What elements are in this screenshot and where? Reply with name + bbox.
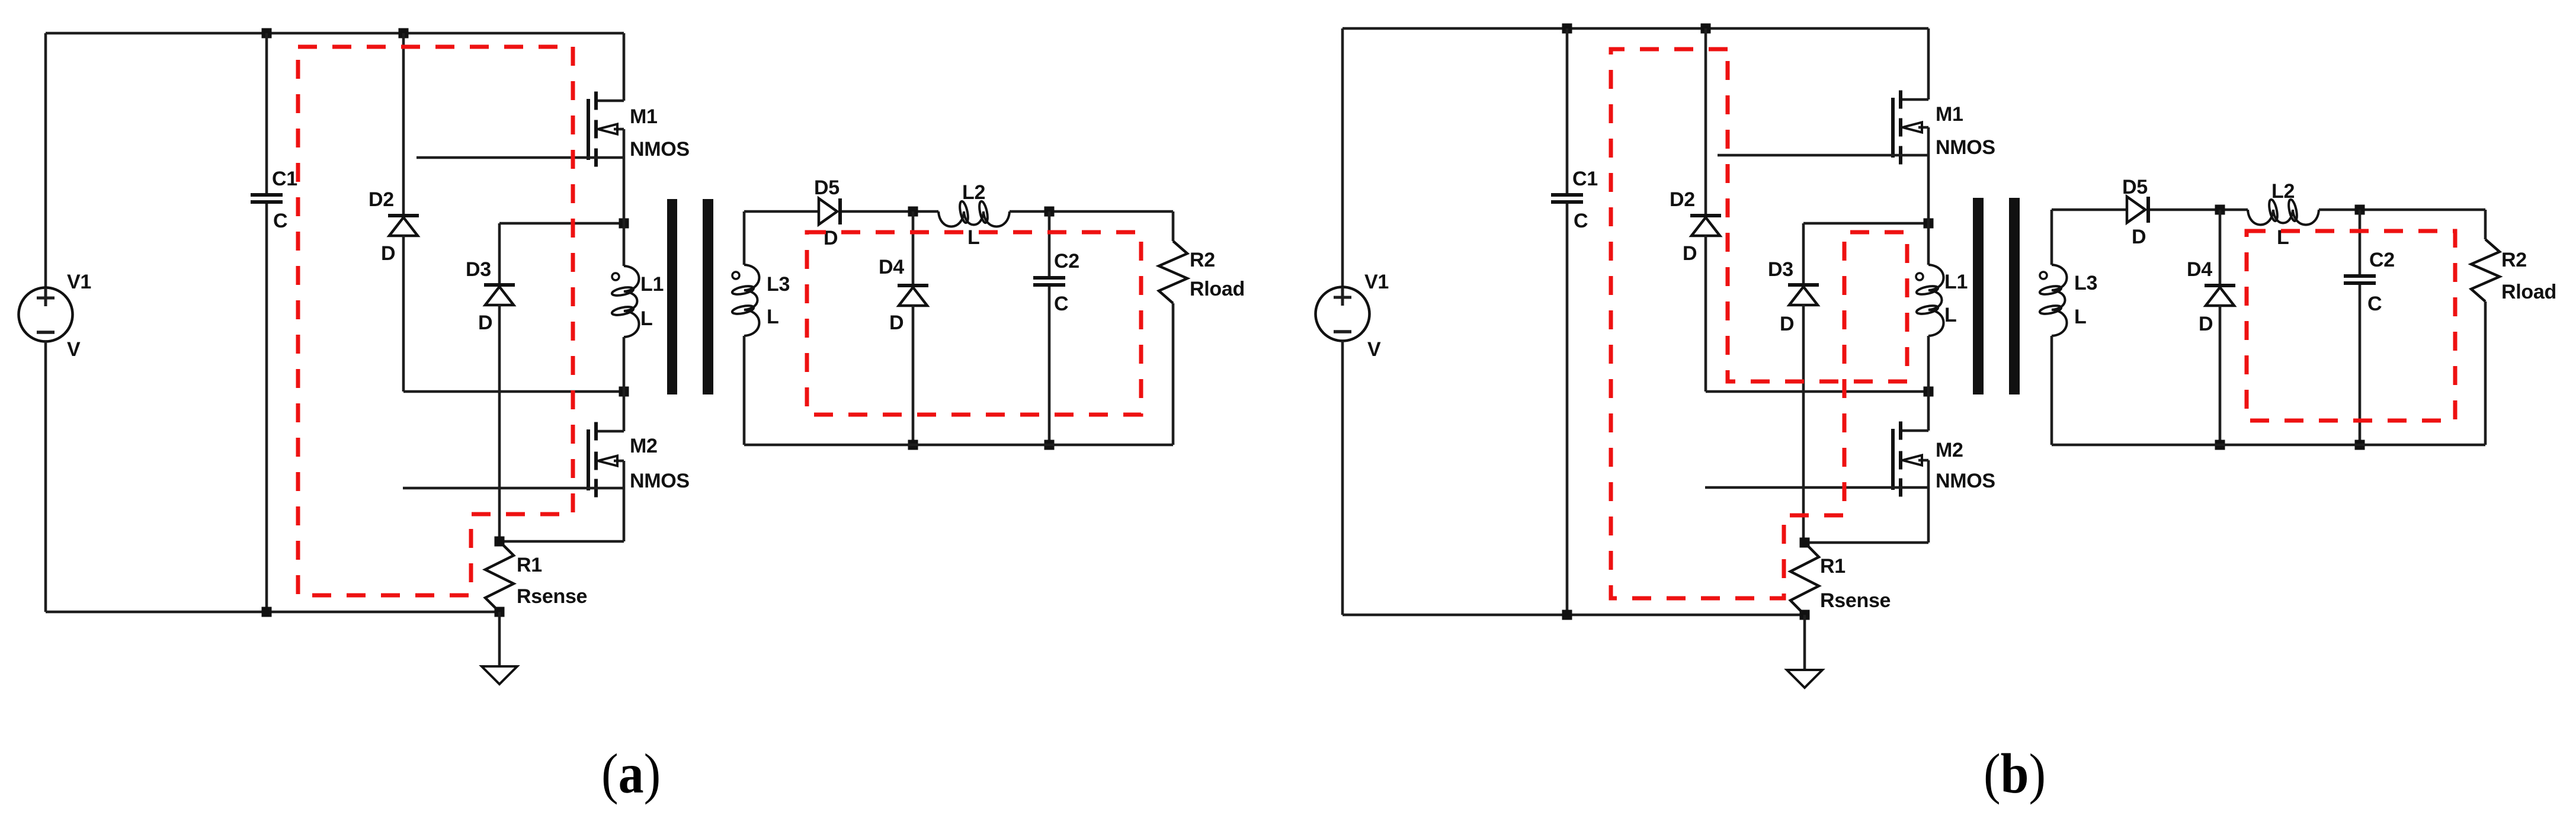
wire D3 upper (a) [498,223,501,284]
diode D2 (a) [388,214,419,236]
capacitor C1 (b) [1551,193,1583,204]
voltage source V1 (b) [1316,287,1370,341]
transformer core bar right (a) [703,199,713,394]
label L1 (a) [640,273,664,296]
node C2 top (b) [2355,205,2365,215]
svg-text:D2: D2 [369,188,394,211]
wire left rail (a) lower [44,341,47,612]
label D4 (a) [879,256,904,278]
wire R2 upper (b) [2484,210,2487,239]
label M1 (a) [630,105,658,128]
transformer core bar left (b) [1973,198,1984,394]
wire node B horizontal (a) [403,390,624,393]
wire C2 lower (a) [1048,287,1051,445]
label L2 (b) [2271,180,2295,203]
svg-text:C2: C2 [2369,249,2395,271]
svg-text:Rsense: Rsense [517,585,587,608]
svg-text:D: D [478,312,492,334]
wire left rail (b) lower [1341,341,1344,615]
wire D3 upper (b) [1802,223,1805,284]
wire D4 lower (a) [912,305,915,445]
resistor R1 (a) [485,541,514,612]
wire D2 lower (a) [402,235,405,392]
node B junction (a) [619,387,629,397]
label M1 NMOS (a) [630,138,690,161]
wire C1 upper (b) [1566,28,1569,194]
svg-text:NMOS: NMOS [1936,136,1995,159]
label D3 (b) [1768,258,1793,281]
svg-text:Rsense: Rsense [1820,589,1891,612]
svg-text:C1: C1 [272,168,297,190]
svg-text:D: D [1683,242,1697,265]
svg-text:L2: L2 [2271,180,2295,203]
wire bottom rail (b) [1343,614,1805,617]
wire C1 lower (b) [1566,204,1569,615]
diode D3 (b) [1788,283,1819,305]
svg-text:C: C [1054,293,1068,315]
node D4 top (a) [908,207,918,217]
svg-text:D4: D4 [879,256,904,278]
wire secondary bottom (a) [744,444,1173,447]
svg-text:(a): (a) [601,742,661,805]
svg-text:R2: R2 [2501,249,2527,271]
svg-text:M2: M2 [630,435,658,457]
svg-text:L2: L2 [962,181,985,204]
inductor L2 (a) [938,201,1010,227]
label L1 (b) [1944,271,1968,293]
label C2 value (b) [2367,293,2382,315]
svg-text:C: C [1574,210,1588,232]
wire L2 to R2 (b) [2319,208,2485,211]
phase dot L1 (b) [1916,273,1923,280]
svg-text:D: D [889,312,903,334]
wire R2 lower (a) [1172,303,1175,445]
node C1 top (b) [1562,24,1572,34]
node C2 top (a) [1045,207,1055,217]
label D5 (b) [2122,176,2148,198]
red current loop secondary (b) [2247,231,2455,421]
caption (b) [1984,742,2046,805]
label L1 value (b) [1944,304,1956,326]
svg-text:(b): (b) [1984,742,2046,805]
svg-text:NMOS: NMOS [630,470,690,492]
label D5 value (a) [824,227,838,249]
label R2 (b) [2501,249,2527,271]
red current loop secondary (a) [807,232,1141,415]
transistor M1 (a) [416,33,624,223]
svg-text:C: C [273,210,287,232]
svg-text:D: D [2199,313,2213,335]
label V (b) [1367,338,1381,361]
label L1 value (a) [640,307,652,330]
red current loop primary (b) [1611,49,1907,598]
label R2 Rload (b) [2501,281,2556,303]
phase dot L3 (a) [732,272,739,279]
svg-text:R1: R1 [1820,555,1846,578]
label C value (a) [273,210,287,232]
wire D3 lower (a) [498,304,501,541]
inductor L2 (b) [2248,199,2319,225]
node D4 bottom (b) [2215,440,2225,450]
label R2 Rload (a) [1190,278,1245,300]
transistor M1 (b) [1718,28,1928,223]
node R1 bottom (a) [495,607,505,617]
transistor M2 (a) [403,392,624,541]
wire M2 source to R1 (b) [1805,541,1928,544]
svg-text:D3: D3 [466,258,491,281]
label D3 value (a) [478,312,492,334]
label C2 (a) [1054,250,1079,272]
wire L2 to R2 (a) [1010,210,1173,213]
node D2 top (a) [399,28,409,39]
diode D2 (b) [1690,214,1721,236]
label L2 value (b) [2277,226,2289,249]
svg-text:V1: V1 [1364,271,1389,293]
node A junction (a) [619,219,629,229]
wire C2 upper (b) [2359,210,2362,275]
wire secondary top left (b) [2052,208,2127,211]
svg-text:L: L [1944,304,1956,326]
label D2 (b) [1670,188,1695,211]
label D5 (a) [814,177,840,199]
svg-text:D: D [2132,226,2146,248]
inductor L1 (a) [611,223,639,392]
label L3 (b) [2074,272,2097,294]
label C1 (b) [1572,168,1598,190]
label D3 value (b) [1780,313,1794,335]
label L3 (a) [767,273,790,296]
label M2 (a) [630,435,658,457]
wire C1 lower (a) [265,204,268,612]
label R2 (a) [1190,249,1215,271]
label R1 Rsense (a) [517,585,587,608]
node C2 bottom (a) [1045,440,1055,450]
label M2 NMOS (b) [1936,470,1995,492]
svg-text:M1: M1 [630,105,658,128]
label D5 value (b) [2132,226,2146,248]
wire secondary top left (a) [744,210,819,213]
svg-text:R1: R1 [517,554,542,576]
node C1 bottom (b) [1562,610,1572,620]
wire D2 lower (b) [1704,235,1707,392]
label V1 (a) [67,271,91,293]
svg-text:C1: C1 [1572,168,1598,190]
svg-text:C: C [2367,293,2382,315]
node B junction (b) [1924,387,1934,397]
svg-text:V1: V1 [67,271,91,293]
wire D4 lower (b) [2219,305,2222,445]
svg-text:Rload: Rload [2501,281,2556,303]
svg-text:M1: M1 [1936,103,1963,126]
wire left rail (a) upper [44,33,47,288]
wire top rail (a) [46,32,624,35]
svg-text:NMOS: NMOS [630,138,690,161]
svg-text:L3: L3 [767,273,790,296]
label C2 (b) [2369,249,2395,271]
transformer core bar left (a) [667,199,677,394]
resistor R1 (b) [1790,543,1819,615]
svg-text:D4: D4 [2187,258,2212,281]
svg-text:V: V [67,338,81,361]
diode D4 (a) [898,284,928,306]
svg-text:M2: M2 [1936,439,1963,461]
svg-text:L: L [767,306,778,328]
svg-text:D5: D5 [814,177,840,199]
resistor R2 Rload (b) [2471,239,2500,301]
wire M2 source to R1 (a) [499,540,624,543]
wire left rail (b) upper [1341,28,1344,288]
capacitor C1 (a) [251,193,283,204]
diode D5 (a) [819,198,842,224]
svg-text:D: D [1780,313,1794,335]
label M1 NMOS (b) [1936,136,1995,159]
diode D4 (b) [2205,284,2235,306]
wire D4 upper (a) [912,211,915,284]
resistor R2 Rload (a) [1159,241,1187,303]
node D2 top (b) [1701,24,1711,34]
label D2 value (b) [1683,242,1697,265]
label M2 NMOS (a) [630,470,690,492]
label C2 value (a) [1054,293,1068,315]
wire node A horizontal (a) [499,222,624,225]
label L2 value (a) [967,226,979,249]
label L3 value (a) [767,306,778,328]
caption (a) [601,742,661,805]
label C1 value (b) [1574,210,1588,232]
svg-text:L1: L1 [640,273,664,296]
svg-text:D5: D5 [2122,176,2148,198]
wire D5 to L2 (a) [842,210,938,213]
wire D2 upper (b) [1704,28,1707,214]
label D2 (a) [369,188,394,211]
node R1 bottom (b) [1800,610,1810,620]
svg-text:L1: L1 [1944,271,1968,293]
node C2 bottom (b) [2355,440,2365,450]
inductor L3 (a) [732,211,760,445]
label D4 value (a) [889,312,903,334]
svg-text:D3: D3 [1768,258,1793,281]
wire C2 upper (a) [1048,211,1051,277]
svg-text:L: L [967,226,979,249]
wire D3 lower (b) [1802,304,1805,543]
node A junction (b) [1924,219,1934,229]
label M1 (b) [1936,103,1963,126]
svg-text:Rload: Rload [1190,278,1245,300]
wire D4 upper (b) [2219,210,2222,284]
transistor M2 (b) [1705,392,1928,543]
phase dot L3 (b) [2040,272,2047,279]
wire R2 lower (b) [2484,301,2487,445]
node C1 top (a) [262,28,272,39]
label M2 (b) [1936,439,1963,461]
svg-text:NMOS: NMOS [1936,470,1995,492]
capacitor C2 (a) [1033,276,1065,287]
transformer core bar right (b) [2009,198,2020,394]
svg-text:C2: C2 [1054,250,1079,272]
wire node A horizontal (b) [1803,222,1928,225]
svg-text:L: L [640,307,652,330]
wire top rail (b) [1343,27,1928,30]
wire C1 upper (a) [265,33,268,194]
wire bottom rail (a) [46,611,499,614]
svg-text:V: V [1367,338,1381,361]
node D4 bottom (a) [908,440,918,450]
wire D2 upper (a) [402,33,405,214]
inductor L1 (b) [1916,223,1944,392]
label L3 value (b) [2074,306,2086,328]
inductor L3 (b) [2039,210,2067,445]
wire node B horizontal (b) [1706,390,1928,393]
label V (a) [67,338,81,361]
label D4 value (b) [2199,313,2213,335]
wire D5 to L2 (b) [2150,208,2248,211]
label D3 (a) [466,258,491,281]
diode D5 (b) [2127,197,2150,223]
label R1 (b) [1820,555,1846,578]
ground (b) [1787,615,1822,688]
svg-text:L3: L3 [2074,272,2097,294]
red current loop primary (a) [298,47,573,595]
node D4 top (b) [2215,205,2225,215]
svg-text:D: D [381,242,395,265]
wire R2 upper (a) [1172,211,1175,241]
label V1 (b) [1364,271,1389,293]
label R1 (a) [517,554,542,576]
node C1 bottom (a) [262,607,272,617]
label L2 (a) [962,181,985,204]
wire C2 lower (b) [2359,285,2362,445]
phase dot L1 (a) [612,273,619,280]
wire secondary bottom (b) [2052,444,2485,447]
label C1 (a) [272,168,297,190]
node R1 top (a) [495,537,505,547]
diode D3 (a) [484,283,515,305]
svg-text:L: L [2074,306,2086,328]
ground (a) [482,612,517,684]
voltage source V1 (a) [19,288,73,342]
label R1 Rsense (b) [1820,589,1891,612]
node R1 top (b) [1800,538,1810,548]
capacitor C2 (b) [2344,274,2376,285]
svg-text:R2: R2 [1190,249,1215,271]
label D2 value (a) [381,242,395,265]
svg-text:D2: D2 [1670,188,1695,211]
label D4 (b) [2187,258,2212,281]
